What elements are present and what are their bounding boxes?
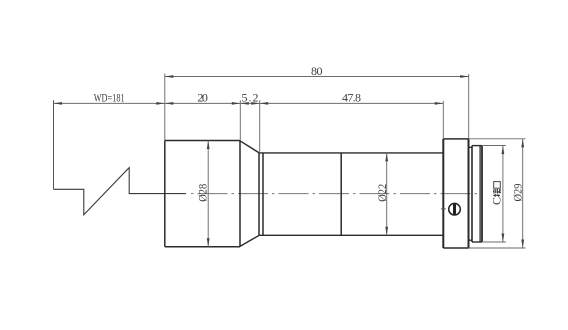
dimension Ø22 bbox=[375, 153, 389, 235]
dimension Ø29 bbox=[511, 139, 525, 248]
centerline bbox=[187, 193, 478, 195]
C-mount cylinder B bbox=[472, 146, 482, 242]
dimension WD=181 bbox=[54, 91, 165, 105]
svg-text:C: C bbox=[490, 197, 504, 205]
front barrel Ø28 bbox=[165, 141, 240, 247]
dimension 80 bbox=[165, 64, 469, 78]
extension lines bbox=[165, 74, 526, 249]
svg-text:47.8: 47.8 bbox=[342, 91, 361, 105]
dimension C-mount bbox=[490, 146, 505, 242]
set screw bbox=[441, 203, 460, 215]
svg-text:WD=181: WD=181 bbox=[94, 91, 125, 105]
svg-text:Ø28: Ø28 bbox=[196, 184, 210, 202]
object plane extension line bbox=[53, 100, 55, 189]
taper cone bbox=[240, 141, 259, 247]
break line bbox=[54, 168, 187, 215]
svg-text:5.2: 5.2 bbox=[242, 91, 259, 105]
small barrel Ø22 bbox=[259, 153, 443, 235]
dimension 5.2 bbox=[240, 91, 259, 105]
svg-text:20: 20 bbox=[197, 91, 208, 105]
barrel joint line bbox=[340, 153, 342, 235]
ring grooves at taper end bbox=[259, 153, 263, 235]
dimension 47.8 bbox=[260, 91, 444, 105]
svg-text:Ø29: Ø29 bbox=[511, 184, 525, 202]
rear ring A bbox=[469, 147, 473, 240]
flange Ø29 bbox=[443, 139, 468, 248]
svg-text:Ø22: Ø22 bbox=[375, 184, 389, 202]
dimension Ø28 bbox=[196, 141, 210, 247]
svg-text:80: 80 bbox=[311, 64, 323, 78]
dimension 20 bbox=[165, 91, 241, 105]
